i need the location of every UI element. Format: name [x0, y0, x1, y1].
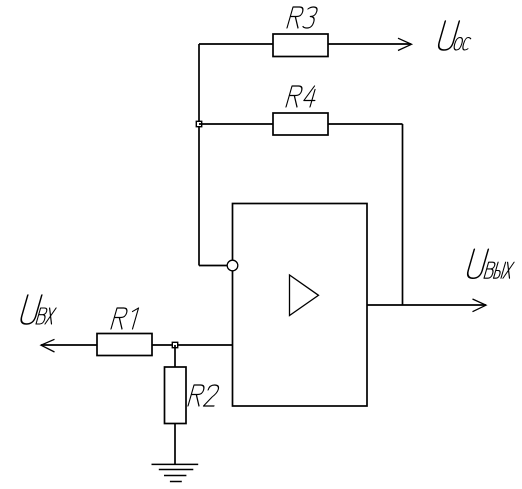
resistor R4 [273, 113, 328, 135]
ground [152, 464, 199, 481]
label R3 [287, 7, 318, 28]
wire R2 top [174, 345, 176, 367]
wire R2 to ground [174, 424, 176, 465]
node junction input/R2 [172, 342, 177, 347]
wire R4 left [199, 123, 273, 125]
wire R4 drop to output [402, 124, 404, 305]
label R2 [188, 385, 220, 406]
arrow Uvyh [473, 299, 487, 312]
wire R3 right to Uoc arrow [328, 43, 411, 45]
arrow Uoc [398, 38, 412, 50]
arrow Uvh (input, pointing left) [41, 339, 55, 352]
node junction on feedback line [196, 121, 201, 126]
op-amp inverting bubble [227, 260, 238, 271]
label Uvh [20, 295, 60, 324]
wire R3 left [199, 43, 273, 45]
wire R1 right to op-amp [152, 344, 233, 346]
resistor R2 [165, 367, 187, 424]
label Uvyh [466, 249, 518, 278]
resistor R3 [273, 34, 328, 57]
label R1 [111, 308, 139, 329]
label R4 [286, 86, 319, 107]
wire left feedback vertical [198, 44, 200, 266]
resistor R1 [97, 334, 152, 356]
wire input left [41, 344, 97, 346]
wire output [367, 304, 486, 306]
wire inverting input stub [199, 265, 227, 267]
label Uoc [437, 21, 476, 50]
wire R4 right [328, 123, 403, 125]
op-amp U1 body [233, 204, 368, 407]
op-amp triangle [290, 275, 319, 316]
